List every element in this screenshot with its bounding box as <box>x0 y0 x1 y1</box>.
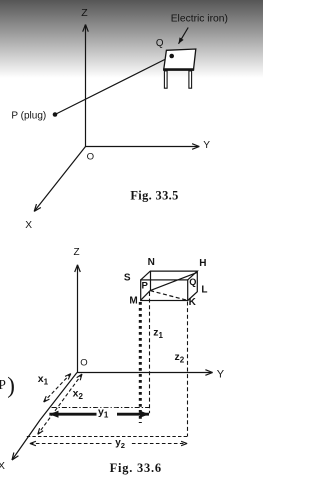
svg-text:Fig. 33.5: Fig. 33.5 <box>130 189 178 203</box>
x2 dashed double arrow <box>38 374 82 434</box>
svg-text:Q: Q <box>189 277 196 287</box>
pointer arrow to electric iron <box>179 28 189 44</box>
X axis (fig 33.5) <box>34 147 85 212</box>
gradient band (scanned page shading) <box>0 0 263 78</box>
svg-text:z2: z2 <box>175 351 185 364</box>
label y2 white backing <box>113 438 132 448</box>
svg-text:x2: x2 <box>73 388 84 402</box>
svg-text:Y: Y <box>217 368 225 380</box>
svg-text:H: H <box>199 258 206 269</box>
box front face <box>141 280 188 301</box>
row dotted to K dropline <box>27 436 188 438</box>
node P dot <box>53 112 58 117</box>
Y axis (fig 33.5) <box>86 146 200 148</box>
box top-back edges N-H <box>141 271 198 280</box>
box right face edges H-L-K <box>188 271 198 300</box>
svg-text:Q: Q <box>156 38 164 49</box>
svg-text:Z: Z <box>81 7 88 19</box>
X axis (fig 33.6) <box>12 373 77 461</box>
svg-text:O: O <box>87 151 94 162</box>
svg-text:S: S <box>124 273 131 284</box>
svg-text:Fig. 33.6: Fig. 33.6 <box>110 461 162 475</box>
node Q dot <box>169 54 174 59</box>
svg-text:M: M <box>129 296 137 307</box>
svg-text:P (plug): P (plug) <box>11 110 46 121</box>
dropline from K (dashed) z2 <box>187 302 189 437</box>
row dash-dot to P dropline <box>52 407 151 409</box>
svg-text:): ) <box>7 373 15 398</box>
dropline from P (dashed) <box>149 292 151 413</box>
table top (electric iron) <box>164 49 196 70</box>
svg-text:P: P <box>0 377 6 392</box>
svg-text:X: X <box>0 461 5 472</box>
box hidden edge N-P vertical <box>150 271 152 291</box>
y2 dashed double arrow <box>30 443 187 445</box>
wire P to Q <box>55 56 172 115</box>
svg-text:X: X <box>25 220 32 231</box>
x1 dashed double arrow <box>44 374 71 402</box>
svg-text:Electric iron): Electric iron) <box>171 13 228 24</box>
y1 thick double arrow <box>49 413 149 416</box>
svg-text:O: O <box>80 357 87 368</box>
dropline from M (thick dotted) z1 <box>139 302 142 423</box>
svg-text:x1: x1 <box>38 373 49 387</box>
svg-text:P: P <box>141 281 148 292</box>
svg-text:L: L <box>201 285 207 296</box>
Z axis (fig 33.6) <box>77 265 79 373</box>
svg-text:N: N <box>148 257 155 268</box>
box edge M-P <box>141 291 151 301</box>
Z axis (fig 33.5) <box>85 25 87 147</box>
table left leg <box>164 71 167 88</box>
diagonal P-Q solid <box>150 272 197 290</box>
label y1 white backing <box>97 408 118 419</box>
svg-text:z1: z1 <box>153 327 163 340</box>
diagonal P-K dashed <box>150 291 187 301</box>
svg-text:Y: Y <box>203 140 210 151</box>
svg-text:K: K <box>189 297 197 308</box>
Y axis (fig 33.6) <box>77 372 213 374</box>
cuboid box edges <box>141 271 198 300</box>
table right leg <box>189 71 192 88</box>
table top edge thick <box>163 68 194 71</box>
svg-text:Z: Z <box>74 247 80 258</box>
